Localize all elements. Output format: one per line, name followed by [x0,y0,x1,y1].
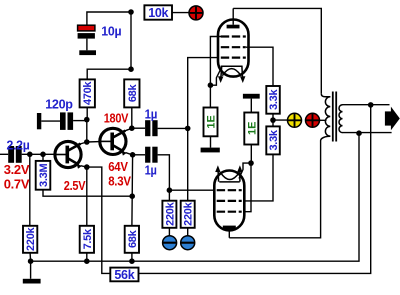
secondary winding [339,105,342,133]
wire: 220k bottom [29,253,32,279]
wire: secondary bottom [343,132,392,134]
svg-text:7.5k: 7.5k [82,228,94,249]
resistor 1E lower cathode [244,113,258,145]
wire: 68k bottom to rail [131,253,133,261]
wire: B+ top rail from 10u cap to 10k [87,12,131,25]
resistor 56k feedback [110,268,138,282]
terminal: B+ (red +) centre tap [306,113,320,127]
wire: cathode node to 1E [209,85,211,107]
wire: 3.3M bottom to bootstrap rail [43,190,132,197]
wire: node down to Q1 collector node [86,120,88,142]
svg-text:0.7V: 0.7V [4,176,30,191]
resistor 7.5k [80,226,94,253]
core [333,92,336,142]
svg-text:56k: 56k [114,268,134,282]
tube V2 plate [223,226,236,238]
tube V2 cathode [215,165,242,182]
capacitor 1u lower coupling [133,147,170,191]
tube V2 suppressor grid [217,211,242,213]
wire: V2 plate to transformer primary bottom [229,141,320,238]
wire: V1 screen to 3.3k [246,47,273,86]
wire: 7.5k bottom to rail [86,253,88,261]
output arrow to speaker [385,107,400,131]
junction: 68k rail [129,258,135,264]
capacitor 10u electrolytic [78,25,95,50]
tube V1 screen grid [221,46,246,48]
wire: 1E to flipped ground [250,99,252,113]
ground: lower cathode (flipped) [243,94,260,99]
wire: junction down to 470k/68k node [130,12,132,69]
terminal: bias (blue -) 1 [163,236,177,250]
junction: Q2 collector node [129,125,135,131]
terminal: bias (blue -) 2 [181,236,195,250]
capacitor 120p with stub plate [37,112,87,129]
svg-text:180V: 180V [104,111,129,126]
wire: lower grid line to lower tube [169,189,214,191]
svg-text:10µ: 10µ [101,23,121,38]
svg-text:10k: 10k [148,6,168,20]
junction: Q1 emitter node [84,164,90,170]
wire: V1 cathode to 1E node [210,68,221,86]
svg-text:3.3M: 3.3M [38,164,50,187]
wire: Q1 collector to node [80,142,87,144]
ground: upper cathode [201,148,220,153]
resistor 220k input [23,226,37,253]
junction: 7.5k rail [84,258,90,264]
svg-text:220k: 220k [25,226,37,250]
junction: upper grid line / 1u [185,126,191,132]
svg-text:220k: 220k [183,201,195,225]
svg-text:470k: 470k [82,81,94,105]
resistor 3.3M [36,161,51,190]
junction: input node to 220k [27,152,33,158]
wire: secondary top to output [343,104,390,106]
svg-text:68k: 68k [127,229,139,248]
junction: Q1 collector node [84,139,90,145]
resistor 220k lower grid leak [162,201,176,228]
wire: 3.3k junction leads [273,114,288,127]
wire: V2 cathode to 1E node [239,163,251,178]
wire: 470k bottom to 120p node [86,107,88,119]
resistor 10k [144,5,172,20]
junction: lower grid node [167,187,173,193]
svg-text:2.2µ: 2.2µ [7,137,30,152]
wire: lower grid node down to 220k [168,190,170,201]
tube V1 cathode [218,66,245,83]
ground: main [23,279,41,284]
junction: 120p/470k node [84,117,90,123]
resistor 3.3k upper screen [266,86,280,114]
junction: input node to 3.3M [40,152,46,158]
wire: emitter node down to 7.5k [86,167,88,226]
junction: input 220k to rail [28,258,34,264]
resistor 470k [80,79,95,107]
resistor 68k emitter [125,226,139,253]
resistor 220k upper grid leak [181,201,195,228]
junction: bootstrap rail to Q2 emitter line [129,193,135,199]
terminal: screen supply (yellow +) [288,113,302,127]
junction: secondary bottom / ground drop [356,130,362,136]
wire: cathode node to suppressor [244,163,251,212]
svg-text:1µ: 1µ [145,107,158,122]
wire: V1 plate rail to transformer primary top [233,8,321,93]
svg-text:1E: 1E [246,121,258,134]
svg-text:3.3k: 3.3k [268,129,280,150]
transformer T1 [321,92,343,142]
terminal: supply (red +) top [189,6,203,20]
resistor 3.3k lower screen [266,126,280,154]
wire: upper tube control grid line [188,58,219,201]
ground rail [31,133,359,261]
junction: V1 cathode node [208,82,214,88]
wire: 220k to bias terminal 1 [168,228,170,236]
svg-text:3.2V: 3.2V [4,162,30,177]
wire: 56k to output secondary (feedback rail) [139,105,371,274]
resistor 68k (driver collector load) [124,79,139,107]
junction: secondary top / feedback [368,102,374,108]
tube V1 control grid [221,56,246,58]
wire: Q2 emitter to node [125,153,132,155]
tube V2 control grid [217,189,242,191]
tube V1 suppressor grid [221,35,246,37]
wire: red terminal to primary centre tap [319,119,326,121]
wire: 3.3M top lead [42,154,44,161]
wire: input node down to 220k input resistor [29,154,31,226]
svg-text:220k: 220k [164,201,176,225]
wire: cathode node up to 1E [250,145,252,163]
wire: node left to 470k top [87,69,131,79]
svg-text:8.3V: 8.3V [108,174,131,189]
wire: Q2 collector to node [125,128,132,131]
transistor Q2 [100,128,127,155]
primary winding [321,94,330,97]
junction: V2 cathode node [248,160,254,166]
junction: Q2 emitter node [130,152,136,158]
wire: V1 suppressor to cathode [210,37,222,86]
wire: 3.3k to lower screen grid [244,154,273,201]
svg-text:3.3k: 3.3k [268,89,280,110]
svg-text:1µ: 1µ [145,162,157,177]
capacitor 1u upper coupling [132,120,188,136]
junction: screen node to yellow terminal [270,117,276,123]
wire: 220k to bias terminal 2 [187,228,189,236]
ground: below 10u [79,50,96,55]
wire: Q2 emitter node down to 68k [131,155,134,226]
wire: 68k bottom to Q2 collector node [131,107,133,128]
tube V1 plate [227,8,240,28]
wire: Q1 emitter to node [81,166,87,167]
wire: Q1 collector node to Q2 base [87,141,100,143]
tube V2 screen grid [217,200,242,202]
svg-text:2.5V: 2.5V [64,178,86,193]
svg-text:1E: 1E [206,115,218,128]
wire: 1E to ground [210,136,212,147]
tube V2 envelope [214,171,244,231]
resistor 1E upper cathode [204,108,218,137]
transistor Q1 [55,141,82,168]
junction: top rail / dropper [128,9,134,15]
capacitor 2.2u input [0,146,54,163]
tube V1 envelope [218,20,249,77]
wire: emitter node right and down to 56k feedback [87,167,111,273]
svg-text:120p: 120p [45,96,73,111]
svg-text:68k: 68k [127,83,139,102]
junction: 470k/68k top node [128,66,134,72]
wire: 10k to red terminal [172,12,189,14]
svg-text:64V: 64V [108,159,128,174]
